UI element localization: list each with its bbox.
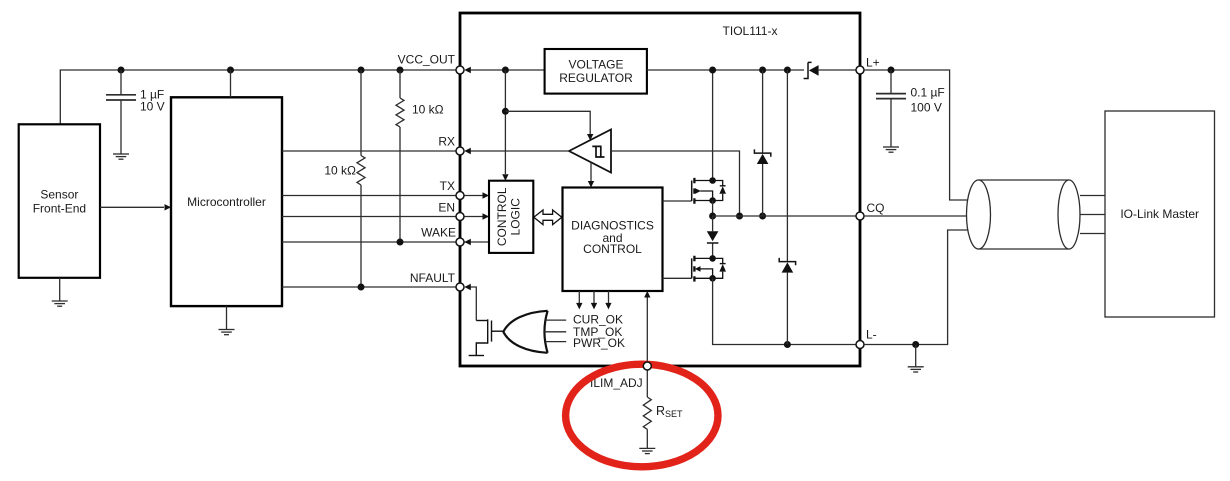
wire NFAULT line MCU to chip xyxy=(282,286,460,288)
wire receiver input from CQ xyxy=(611,151,740,216)
svg-text:RX: RX xyxy=(438,135,455,149)
svg-text:NFAULT: NFAULT xyxy=(410,271,456,285)
node junction rail zener Z1 xyxy=(759,67,766,74)
wire L- to cable xyxy=(864,230,972,345)
capacitor C1 1uF xyxy=(106,70,136,154)
arrow into VCC_OUT pin xyxy=(464,67,471,73)
wire MCU supply drop xyxy=(230,70,232,97)
wire NFAULT pin to Q3 drain xyxy=(470,287,476,321)
IC TIOL111-x outline xyxy=(460,13,860,366)
svg-text:VOLTAGE: VOLTAGE xyxy=(569,57,624,71)
box IO-Link Master xyxy=(1105,111,1215,317)
wire WAKE line MCU to chip xyxy=(282,241,489,243)
resistor RSET xyxy=(643,366,651,448)
pin circle CQ xyxy=(856,212,864,220)
arrow TX into control logic xyxy=(483,192,490,198)
gate U-OR wired-or xyxy=(503,311,547,353)
svg-text:VCC_OUT: VCC_OUT xyxy=(398,53,456,67)
wire L+ to cable xyxy=(864,70,972,200)
box voltage regulator U-VR xyxy=(545,49,647,94)
pin circle RX xyxy=(456,147,464,155)
svg-text:EN: EN xyxy=(438,201,455,215)
hysteresis symbol xyxy=(592,146,604,157)
node junction rail zener Z2 xyxy=(784,67,791,74)
wire RX line MCU to chip xyxy=(282,150,460,152)
svg-text:TX: TX xyxy=(440,179,455,193)
wire cable to master L- xyxy=(1080,233,1105,235)
wire diagnostics status CUR arrow xyxy=(578,291,580,303)
diode D1 reverse polarity (schottky) xyxy=(804,62,819,78)
resistor R2 10k NFAULT pull-up xyxy=(357,70,365,287)
node junction R2 pull-up on rail xyxy=(358,67,365,74)
pin circle L- xyxy=(856,341,864,349)
transistor Q3 NFAULT open-drain xyxy=(469,319,503,355)
box control logic U-CL xyxy=(489,181,533,253)
wire receiver output to RX pin xyxy=(470,150,569,152)
svg-text:REGULATOR: REGULATOR xyxy=(559,71,633,85)
node junction supply to receiver xyxy=(502,108,509,115)
svg-text:IO-Link Master: IO-Link Master xyxy=(1120,207,1199,221)
wire receiver to diagnostics xyxy=(590,162,592,181)
ground below Sensor Front-End xyxy=(52,278,68,306)
wire M1 source to CQ node xyxy=(712,201,714,217)
wire OR input PWR_OK xyxy=(545,341,566,343)
wire OR input CUR_OK xyxy=(545,319,566,321)
wire EN line MCU to chip xyxy=(282,216,484,218)
svg-text:LOGIC: LOGIC xyxy=(509,198,523,236)
pin circle L+ xyxy=(856,66,864,74)
wire CQ internal line xyxy=(713,215,856,217)
wire OR input TMP_OK xyxy=(544,331,566,333)
wire TX line MCU to chip xyxy=(282,195,484,197)
wire CQ to cable xyxy=(864,215,972,217)
node junction internal supply branch xyxy=(502,67,509,74)
svg-text:Front-End: Front-End xyxy=(33,201,86,215)
transistor Q1 high-side MOSFET xyxy=(663,177,727,204)
transistor Q2 low-side MOSFET xyxy=(663,255,727,282)
ground below Microcontroller xyxy=(219,306,235,335)
resistor R1 10k WAKE pull-up xyxy=(396,70,404,242)
highlight red ellipse around RSET xyxy=(566,364,718,467)
arrow into NFAULT pin xyxy=(464,284,471,290)
node junction C2 on L+ xyxy=(888,67,895,74)
pin circle WAKE xyxy=(456,238,464,246)
node junction L- zener Z2 xyxy=(784,341,791,348)
ground on L- line xyxy=(908,345,924,373)
box Microcontroller xyxy=(171,97,282,306)
svg-text:WAKE: WAKE xyxy=(421,226,456,240)
svg-text:RSET: RSET xyxy=(656,404,683,419)
pin circle EN xyxy=(456,213,464,221)
svg-text:10 kΩ: 10 kΩ xyxy=(324,163,356,177)
svg-text:CONTROL: CONTROL xyxy=(495,187,509,246)
svg-text:100 V: 100 V xyxy=(911,100,942,114)
wire ILIM_ADJ to diagnostics xyxy=(646,298,648,367)
ground below C2 xyxy=(883,147,899,152)
wire diagnostics status TMP arrow xyxy=(593,291,595,303)
wire supply to receiver buffer xyxy=(505,111,590,134)
node junction rail M1 xyxy=(709,67,716,74)
svg-text:L-: L- xyxy=(866,328,877,342)
wire diode to L+ pin xyxy=(819,69,856,71)
node junction CQ zener Z1 xyxy=(759,213,766,220)
node junction CQ receiver tap xyxy=(736,213,743,220)
wire regulator output rail to L+ diode xyxy=(647,69,804,71)
box Sensor Front-End xyxy=(19,124,100,277)
cable shield body xyxy=(967,180,1081,249)
svg-text:10 kΩ: 10 kΩ xyxy=(412,103,444,117)
box diagnostics and control U-DC xyxy=(563,188,663,292)
arrow into RX pin xyxy=(464,148,471,154)
zener Z2 rail to L- xyxy=(779,70,795,345)
svg-text:CQ: CQ xyxy=(867,201,885,215)
wire cable to master CQ xyxy=(1080,214,1105,216)
node junction cap C1 on rail xyxy=(118,67,125,74)
svg-text:Microcontroller: Microcontroller xyxy=(187,195,266,209)
wire VCC rail xyxy=(60,70,460,124)
pin circle VCC_OUT xyxy=(456,66,464,74)
node junction CQ M1 xyxy=(709,213,716,220)
node junction R1 to WAKE xyxy=(397,239,404,246)
pin circle ILIM_ADJ xyxy=(643,362,651,370)
svg-text:10 V: 10 V xyxy=(140,99,165,113)
svg-text:Sensor: Sensor xyxy=(40,187,78,201)
wire high-side rail to M1 drain xyxy=(712,70,714,181)
arrow into WAKE pin xyxy=(464,239,471,245)
node junction ground on L- xyxy=(912,341,919,348)
svg-text:L+: L+ xyxy=(866,56,880,70)
capacitor C2 0.1uF xyxy=(876,70,906,147)
svg-text:PWR_OK: PWR_OK xyxy=(573,336,625,350)
op-amp U-RX schmitt receiver xyxy=(569,130,611,173)
wire cable to master L+ xyxy=(1080,195,1105,197)
zener Z1 rail to CQ xyxy=(754,70,770,216)
pin circle NFAULT xyxy=(456,283,464,291)
svg-text:TIOL111-x: TIOL111-x xyxy=(723,24,778,38)
bus double arrow control logic to diagnostics xyxy=(534,210,562,225)
wire M2 source to L- line xyxy=(713,278,856,344)
svg-text:ILIM_ADJ: ILIM_ADJ xyxy=(590,376,643,390)
svg-text:CONTROL: CONTROL xyxy=(583,242,642,256)
pin circle TX xyxy=(456,192,464,200)
wire supply drop to control logic xyxy=(504,70,506,174)
ground below RSET xyxy=(639,448,655,453)
diode D2 between M1 and M2 xyxy=(707,216,719,258)
svg-text:0.1 µF: 0.1 µF xyxy=(911,86,945,100)
node junction R1 pull-up on rail xyxy=(397,67,404,74)
wire diagnostics status PWR arrow xyxy=(608,291,610,303)
arrow EN into control logic xyxy=(483,213,490,219)
wire Sensor to Microcontroller xyxy=(100,206,164,208)
wire VCC_OUT pin to voltage regulator xyxy=(470,69,545,71)
ground below C1 xyxy=(113,154,129,159)
node junction R2 to NFAULT xyxy=(358,284,365,291)
node junction MCU supply on rail xyxy=(227,67,234,74)
